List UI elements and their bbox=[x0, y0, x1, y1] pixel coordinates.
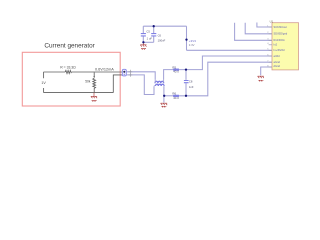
wire cap C5 bottom lead bbox=[142, 36, 144, 42]
wire pin2 bracket bbox=[245, 23, 272, 34]
wire capacitor C top lead bbox=[185, 70, 187, 80]
pin names bbox=[274, 25, 288, 68]
svg-text:In2: In2 bbox=[274, 43, 278, 47]
junction node 3V3 flag bbox=[185, 38, 187, 40]
capacitor C6 plates bbox=[151, 34, 156, 36]
svg-text:40.0: 40.0 bbox=[173, 96, 179, 100]
svg-text:Current generator: Current generator bbox=[44, 42, 95, 49]
potentiometer wiper arrow bbox=[93, 72, 95, 76]
wire pin1 bracket bbox=[257, 23, 272, 28]
junction node caps rail bbox=[153, 25, 155, 27]
junction node choke-R2 bbox=[163, 95, 165, 97]
wire choke right bottom junction bbox=[163, 86, 165, 96]
resistor R1 40.0 (box style) bbox=[173, 69, 178, 71]
IC pin stubs and numbers bbox=[269, 27, 272, 67]
wire 3V3 to pin5 bbox=[187, 49, 273, 51]
junction node caps ground bbox=[142, 41, 144, 43]
wire resistor to port bbox=[72, 71, 123, 73]
svg-text:Rv2/DOin: Rv2/DOin bbox=[274, 38, 286, 42]
svg-text:40.0: 40.0 bbox=[173, 70, 179, 74]
red sheet box Current generator bbox=[22, 52, 120, 106]
net tie cross on net A bbox=[128, 70, 132, 74]
svg-text:dGnd: dGnd bbox=[274, 64, 281, 68]
svg-text:0.6V/12mA: 0.6V/12mA bbox=[95, 68, 114, 72]
svg-text:aGnd: aGnd bbox=[274, 60, 281, 64]
svg-text:50k: 50k bbox=[85, 80, 91, 84]
wire return L to port bbox=[113, 75, 122, 93]
junction node R1-C bbox=[185, 68, 187, 70]
svg-text:C6: C6 bbox=[158, 34, 162, 38]
potentiometer RV 50k zigzag bbox=[93, 78, 96, 92]
choke L1 winding top bbox=[155, 81, 164, 86]
wire R1 to corner and pin6 bbox=[179, 56, 272, 70]
wire 3V3 vertical bbox=[186, 26, 188, 50]
ground GND2 (choke, red) bbox=[161, 103, 168, 107]
wire choke right top to R1 bbox=[164, 70, 174, 80]
wire ground stub choke bbox=[163, 96, 165, 103]
wire caps bottom rail bbox=[143, 41, 153, 43]
bottom rail wire bbox=[44, 92, 114, 94]
pin numbers bbox=[267, 25, 269, 67]
wire pin3 bracket bbox=[235, 23, 272, 41]
junction node R2-C bbox=[185, 95, 187, 97]
wire R2 to corner and pin7 bbox=[179, 62, 272, 96]
wire net A port to choke bbox=[126, 72, 155, 80]
svg-text:1 uF: 1 uF bbox=[147, 37, 153, 41]
wire pin8 to ground bbox=[261, 67, 272, 75]
choke L1 winding bottom bbox=[155, 84, 164, 86]
capacitor C8 1nF plates bbox=[184, 81, 189, 83]
svg-text:R = 33.3Ω: R = 33.3Ω bbox=[60, 66, 76, 70]
svg-text:3.3V: 3.3V bbox=[189, 43, 195, 47]
svg-text:C5: C5 bbox=[146, 29, 150, 33]
wire top of source loop bbox=[44, 71, 66, 73]
wire capacitor C bottom lead bbox=[185, 83, 187, 96]
ground GND3 (IC pin8, red) bbox=[258, 76, 264, 81]
wire bottom rail to R2 bbox=[164, 95, 173, 97]
resistor R 33.3 zigzag bbox=[65, 70, 71, 73]
wire cap C6 bottom lead bbox=[153, 36, 155, 42]
svg-text:R6: R6 bbox=[172, 91, 176, 95]
svg-text:C8: C8 bbox=[189, 79, 193, 83]
wire decoupling top rail bbox=[143, 25, 186, 27]
svg-text:U1: U1 bbox=[270, 20, 274, 24]
wire cap C6 top lead bbox=[153, 26, 155, 33]
svg-text:SDI/SDIgnd: SDI/SDIgnd bbox=[274, 32, 288, 36]
wire cap C5 top lead bbox=[142, 26, 144, 33]
svg-text:aVdd: aVdd bbox=[274, 54, 281, 58]
ground GND4 (caps, red) bbox=[140, 43, 146, 50]
svg-text:1V: 1V bbox=[41, 81, 46, 85]
net tie cross on net B bbox=[128, 73, 132, 77]
svg-text:100nF: 100nF bbox=[158, 39, 166, 43]
choke lead arcs bbox=[154, 80, 164, 87]
voltage source V1 1V (wire gap with label) bbox=[43, 72, 45, 93]
ground GND1 (pot, red) bbox=[91, 93, 97, 102]
capacitor C5 plates bbox=[141, 34, 146, 36]
resistor R2 40.0 (box style) bbox=[173, 95, 178, 97]
svg-text:1nF: 1nF bbox=[189, 85, 194, 89]
connector P1 (2-pin port on box edge) bbox=[122, 69, 126, 76]
wire net B port to choke bbox=[126, 75, 154, 95]
IC U1 (yellow sheet/symbol) bbox=[272, 23, 299, 70]
potentiometer arrow head bbox=[93, 76, 95, 78]
svg-text:SCK/SCout: SCK/SCout bbox=[274, 25, 288, 29]
svg-text:In+/DVdd: In+/DVdd bbox=[274, 48, 285, 52]
